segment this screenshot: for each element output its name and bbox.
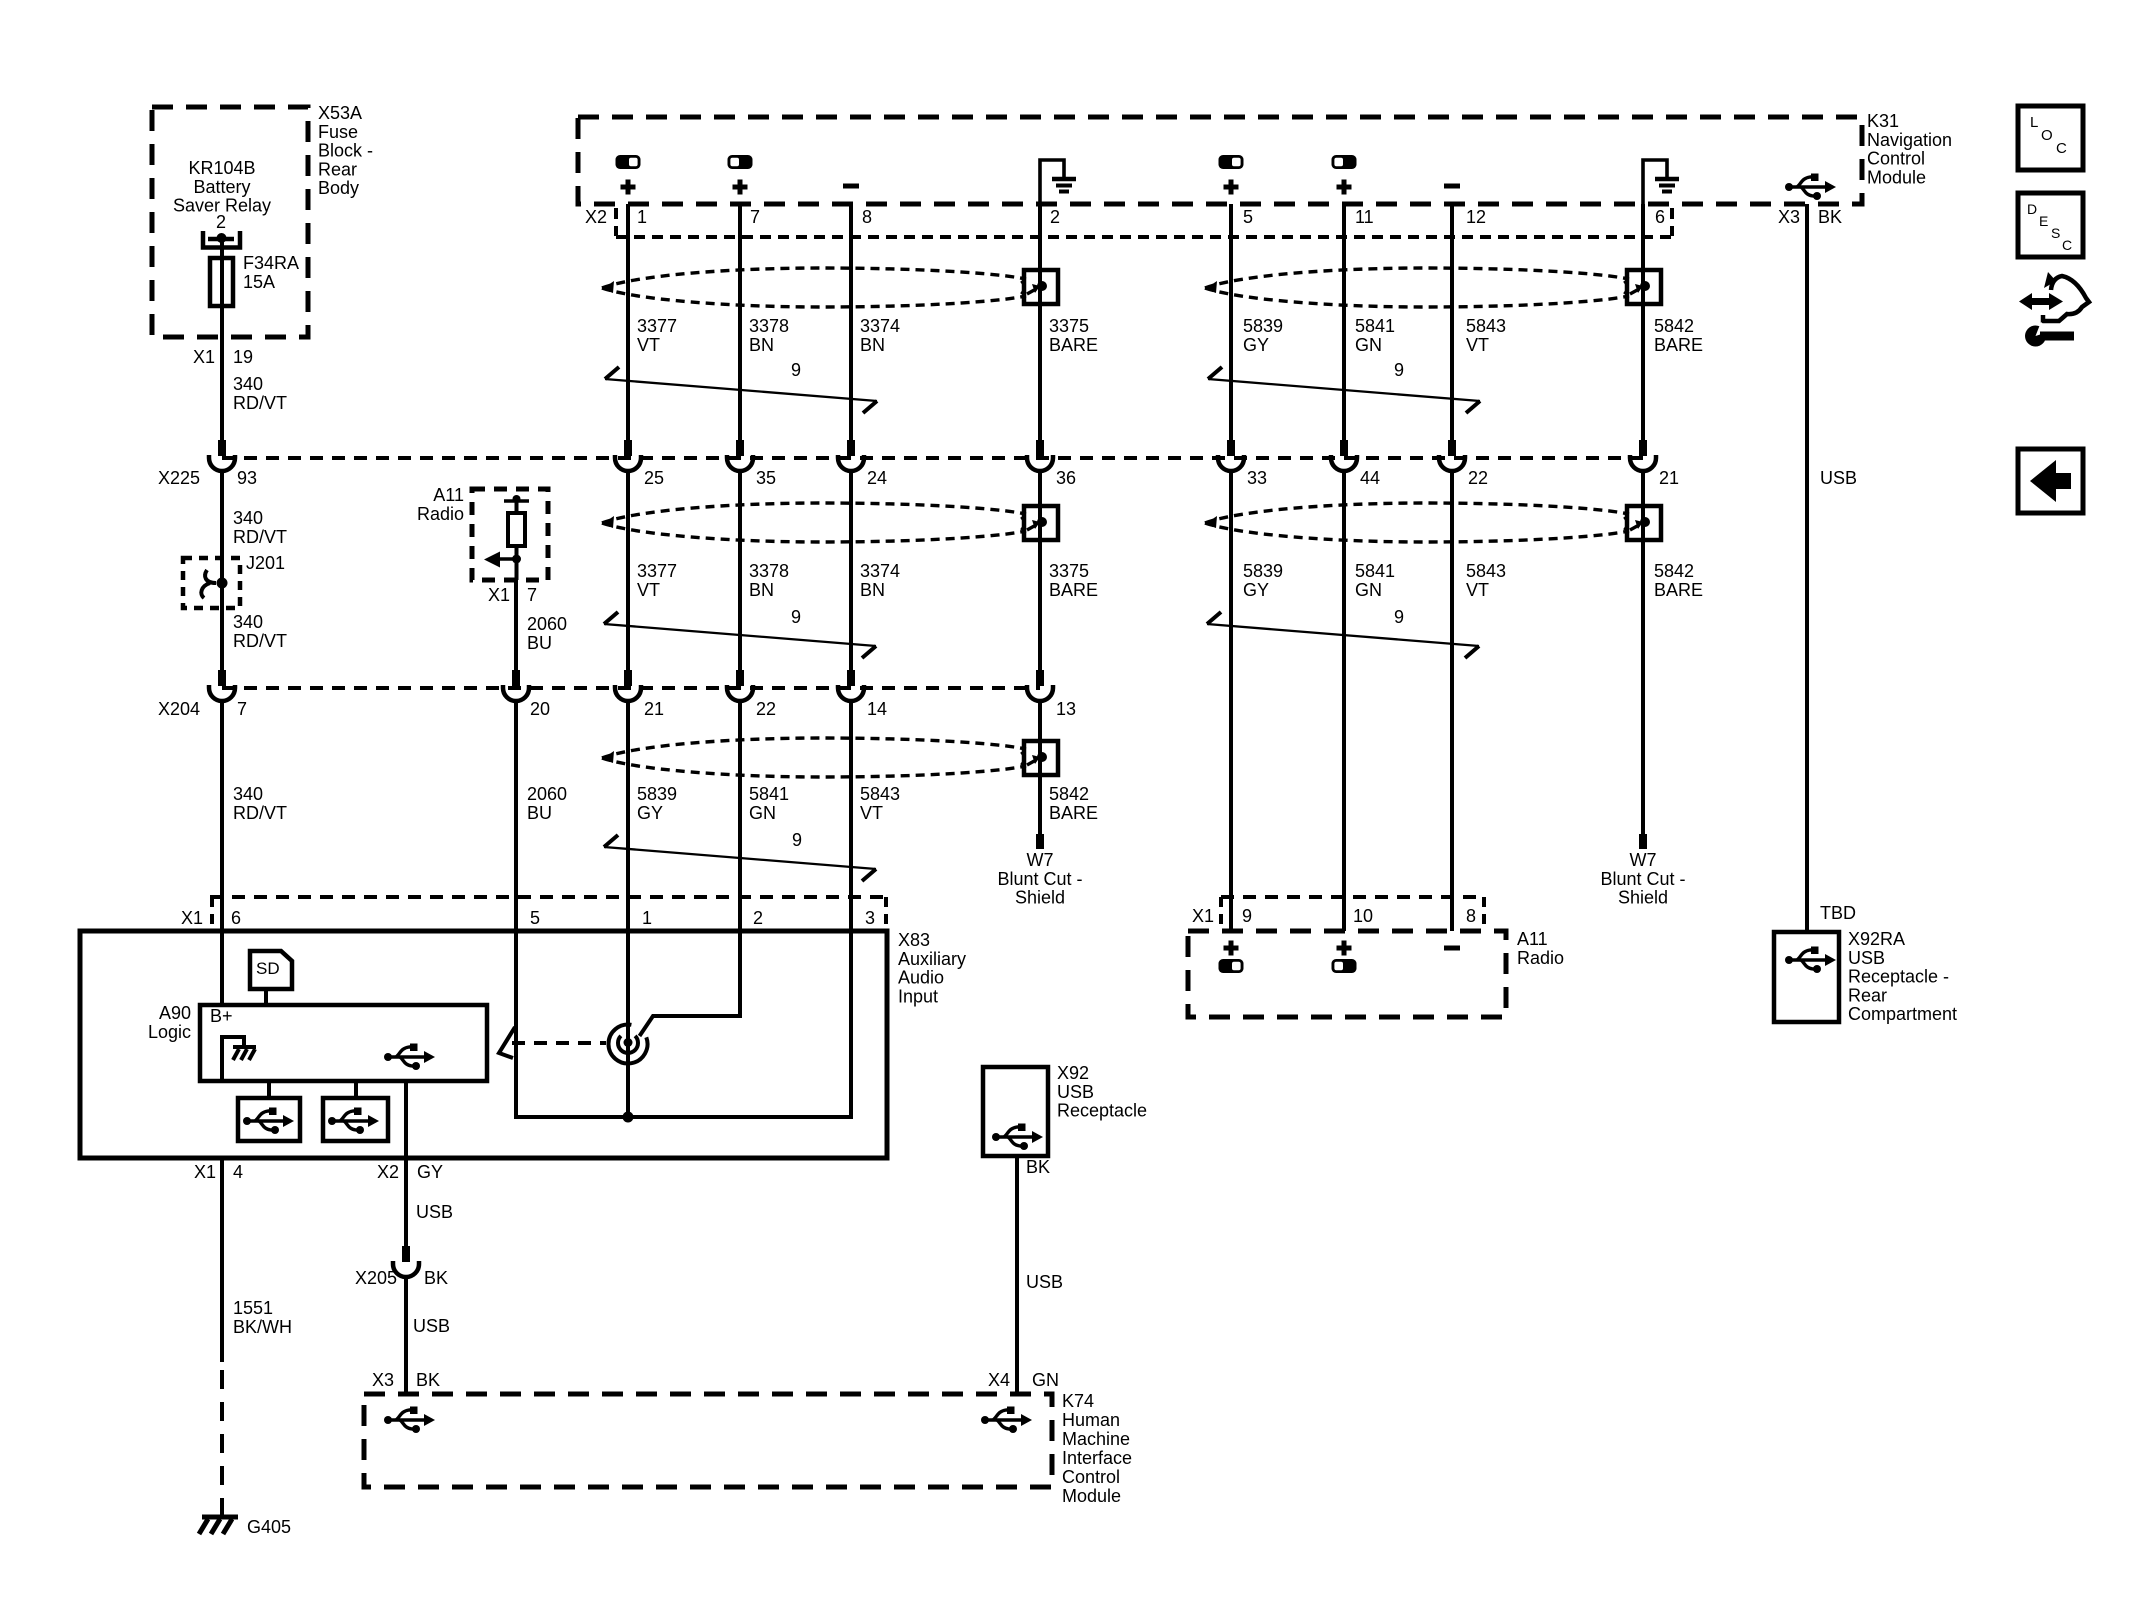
svg-text:25: 25	[644, 468, 664, 488]
plus polarity pin 11	[1337, 180, 1352, 195]
connector terminal X204 at x740	[727, 670, 753, 701]
svg-text:X1: X1	[488, 585, 510, 605]
wire A90 to usb port 2	[354, 1081, 358, 1098]
svg-text:E: E	[2039, 213, 2048, 229]
wire 5843 VT X225 to A11 radio	[1450, 471, 1454, 931]
svg-text:X2: X2	[377, 1162, 399, 1182]
shield termination row3 left	[1021, 741, 1058, 775]
wire 340 RD/VT X225 to J201	[220, 471, 224, 558]
ground G405	[202, 1515, 238, 1520]
wire 3377 VT pin1 to X225	[626, 204, 630, 441]
USB symbol internal A90	[384, 1044, 435, 1071]
wire GY USB A90 to X205	[404, 1158, 408, 1247]
usb port box 1	[238, 1098, 300, 1141]
svg-text:SD: SD	[256, 959, 280, 978]
aux jack contact (pin1)	[626, 931, 630, 1042]
svg-text:C: C	[2062, 237, 2072, 253]
speaker terminal symbol K31 pin 11	[1332, 155, 1357, 169]
svg-text:X2: X2	[585, 207, 607, 227]
svg-text:11: 11	[1355, 207, 1374, 227]
svg-text:7: 7	[237, 699, 247, 719]
svg-text:L: L	[2030, 114, 2038, 131]
dashed wire to G405	[220, 1370, 224, 1516]
internal arrow output A11 Radio	[512, 555, 521, 564]
svg-text:4: 4	[233, 1162, 243, 1182]
svg-text:1: 1	[637, 207, 647, 227]
svg-text:8: 8	[1466, 906, 1476, 926]
shield termination row2 left	[1021, 506, 1058, 540]
connector terminal X204 at x222	[209, 670, 235, 701]
wire 5842 BARE X204 to blunt cut left	[1038, 701, 1042, 848]
wire 340 RD/VT X204 to A90 B+	[220, 701, 224, 1005]
twisted pair shield row1 right	[1205, 268, 1629, 307]
wire 3378 BN X225 to X204	[738, 471, 742, 672]
module box A11 Radio (top)	[472, 489, 548, 580]
wire 3374 BN pin8 to X225	[849, 204, 853, 441]
speaker terminal symbol K31 pin 5	[1219, 155, 1244, 169]
svg-text:10: 10	[1353, 906, 1373, 926]
plus polarity pin 1	[621, 180, 636, 195]
svg-text:X205: X205	[355, 1268, 397, 1288]
connector terminal X225 at x1040	[1027, 440, 1053, 471]
svg-text:1: 1	[642, 908, 652, 928]
internal bus wire pins 5-1-3	[514, 931, 518, 1117]
svg-text:BK: BK	[416, 1370, 440, 1390]
module box A11 Radio bottom	[1188, 931, 1506, 1017]
icon box LOC	[2018, 106, 2083, 170]
wire USB X3 to X92RA	[1805, 204, 1809, 932]
connector terminal X225 at x1643	[1630, 440, 1656, 471]
wire 3377 VT X225 to X204	[626, 471, 630, 672]
svg-text:21: 21	[644, 699, 664, 719]
svg-text:24: 24	[867, 468, 887, 488]
svg-text:X1: X1	[193, 347, 215, 367]
svg-text:5: 5	[1243, 207, 1253, 227]
svg-text:G405: G405	[247, 1517, 291, 1537]
wire 5843 VT X204 to X83 pin3	[849, 701, 853, 1117]
svg-text:9: 9	[1394, 607, 1404, 627]
wire 5843 VT pin12 to X225	[1450, 204, 1454, 441]
svg-text:3: 3	[865, 908, 875, 928]
minus polarity pin 12	[1444, 184, 1460, 189]
note 9 arrow row3 left	[604, 835, 876, 881]
blunt cut W7 left end stub	[1036, 834, 1044, 849]
wire 3375 BARE X225 to X204	[1038, 471, 1042, 672]
USB symbol K31 connector X3	[1785, 174, 1836, 201]
wire BK USB X92 to K74 X4	[1015, 1156, 1019, 1394]
wire relay to fuse F34RA	[220, 238, 224, 258]
svg-text:9: 9	[791, 607, 801, 627]
svg-text:USB: USB	[1820, 468, 1857, 488]
connector X1 of X83	[210, 895, 884, 899]
svg-text:X1: X1	[181, 908, 203, 928]
module box K74 Human Machine Interface Control Module	[364, 1394, 1052, 1487]
USB symbol port 2	[328, 1108, 379, 1135]
twisted pair shield row2 left	[602, 503, 1026, 542]
svg-text:33: 33	[1247, 468, 1267, 488]
svg-text:35: 35	[756, 468, 776, 488]
svg-text:36: 36	[1056, 468, 1076, 488]
svg-text:X225: X225	[158, 468, 200, 488]
module box A90 Logic	[200, 1005, 487, 1081]
svg-text:BK: BK	[424, 1268, 448, 1288]
svg-text:X204: X204	[158, 699, 200, 719]
SD card symbol	[250, 951, 292, 989]
svg-text:GY: GY	[417, 1162, 443, 1182]
svg-text:BK: BK	[1818, 207, 1842, 227]
wire A90 to usb port 1	[267, 1081, 271, 1098]
svg-text:X1: X1	[194, 1162, 216, 1182]
svg-text:S: S	[2051, 225, 2060, 241]
wire 5842 BARE pin6 to X225	[1641, 204, 1645, 441]
wire 5839 GY X204 to X83 pin1 jack	[626, 701, 630, 1117]
wire A90 X2 USB output	[404, 1081, 408, 1158]
svg-text:9: 9	[792, 830, 802, 850]
wire 5839 GY X225 to A11 radio	[1229, 471, 1233, 931]
connector terminal X225 at x1231	[1218, 440, 1244, 471]
twisted pair shield row1 left	[602, 268, 1026, 307]
plus polarity A11 pin 9	[1224, 941, 1239, 956]
svg-text:USB: USB	[413, 1316, 450, 1336]
svg-text:X1: X1	[1192, 906, 1214, 926]
twisted pair shield row2 right	[1205, 503, 1629, 542]
USB symbol X92	[992, 1124, 1043, 1151]
speaker terminal symbol A11 pin 10	[1332, 959, 1357, 973]
svg-text:USB: USB	[1026, 1272, 1063, 1292]
speaker terminal symbol K31 pin 1	[616, 155, 641, 169]
wire 3375 BARE pin2 to X225	[1038, 204, 1042, 441]
wire 5841 GN pin11 to X225	[1342, 204, 1346, 441]
module box X83 Auxiliary Audio Input	[80, 931, 887, 1158]
internal ground symbol K31 pin 2	[1040, 160, 1076, 204]
minus polarity A11 pin 8	[1444, 946, 1460, 951]
connector terminal X204 at x1040	[1027, 670, 1053, 701]
svg-text:12: 12	[1466, 207, 1486, 227]
svg-text:9: 9	[1242, 906, 1252, 926]
svg-text:X3: X3	[372, 1370, 394, 1390]
connector terminal X204 at x516	[503, 670, 529, 701]
connector terminal X225 at x628	[615, 440, 641, 471]
svg-text:20: 20	[530, 699, 550, 719]
wire 2060 BU A11 radio to X204	[514, 580, 518, 672]
fuse F34RA 15A	[210, 258, 233, 306]
module box X92RA USB Receptacle Rear	[1774, 932, 1839, 1022]
svg-text:9: 9	[1394, 360, 1404, 380]
usb port box 2	[323, 1098, 388, 1141]
wire 5842 BARE X225 to blunt cut	[1641, 471, 1645, 848]
aux jack switch lever (pin2)	[640, 931, 741, 1036]
svg-text:2: 2	[753, 908, 763, 928]
svg-text:BK: BK	[1026, 1157, 1050, 1177]
wire 5839 GY pin5 to X225	[1229, 204, 1233, 441]
icon box back arrow	[2018, 449, 2083, 513]
note 9 arrow row2 left	[604, 612, 876, 658]
wire SD to A90	[264, 989, 268, 1005]
plus polarity pin 7	[733, 180, 748, 195]
connector terminal X204 at x628	[615, 670, 641, 701]
svg-text:X3: X3	[1778, 207, 1800, 227]
note 9 arrow row1 left	[605, 367, 877, 413]
internal supply bar and resistor in A11 Radio	[504, 499, 529, 503]
plus polarity A11 pin 10	[1337, 941, 1352, 956]
connector terminal X225 at x1452	[1439, 440, 1465, 471]
internal ground symbol K31 pin 6	[1643, 160, 1679, 204]
connector terminal X225 at x1344	[1331, 440, 1357, 471]
wire 2060 BU X204 to X83 pin5	[514, 701, 518, 1117]
note 9 arrow row1 right	[1208, 367, 1480, 413]
svg-text:6: 6	[231, 908, 241, 928]
connector X2 of K31	[614, 208, 618, 236]
twisted pair shield row3 left	[602, 738, 1026, 777]
USB symbol K74 X4	[981, 1407, 1032, 1434]
shield termination row2 right	[1624, 506, 1661, 540]
svg-text:USB: USB	[416, 1202, 453, 1222]
USB symbol port 1	[243, 1108, 294, 1135]
svg-text:19: 19	[233, 347, 253, 367]
blunt cut W7 right end stub	[1639, 834, 1647, 849]
svg-text:D: D	[2027, 201, 2037, 217]
dashed actuator line A90 to jack	[512, 1041, 606, 1045]
USB symbol K74 X3	[384, 1407, 435, 1434]
module box X92 USB Receptacle	[983, 1067, 1048, 1156]
shield termination row1 left on 3375	[1021, 270, 1058, 304]
svg-text:O: O	[2041, 127, 2053, 144]
in-line connector X225	[222, 456, 1643, 460]
svg-text:93: 93	[237, 468, 257, 488]
wire 5841 GN X225 to A11 radio	[1342, 471, 1346, 931]
speaker terminal symbol K31 pin 7	[728, 155, 753, 169]
note 9 arrow row2 right	[1207, 612, 1479, 658]
wire 1551 BK/WH	[220, 1158, 224, 1362]
splice J201	[183, 558, 240, 608]
icon repair instructions (arrows and wrench)	[2019, 293, 2063, 310]
wire 3374 BN X225 to X204	[849, 471, 853, 672]
connector terminal X225 at x740	[727, 440, 753, 471]
svg-text:5: 5	[530, 908, 540, 928]
svg-text:J201: J201	[246, 553, 285, 573]
svg-text:6: 6	[1655, 207, 1665, 227]
minus polarity pin 8	[843, 184, 859, 189]
connector X1 of A11 radio bottom	[1221, 895, 1484, 899]
svg-text:44: 44	[1360, 468, 1380, 488]
relay KR104B terminal	[203, 231, 240, 248]
svg-text:X4: X4	[988, 1370, 1010, 1390]
module box X53A Fuse Block - Rear Body	[152, 107, 308, 337]
shield termination row1 right on 5842	[1624, 270, 1661, 304]
svg-text:8: 8	[862, 207, 872, 227]
svg-text:13: 13	[1056, 699, 1076, 719]
USB symbol X92RA	[1785, 947, 1836, 974]
module box K31 Navigation Control Module	[578, 117, 1862, 204]
wire 340 RD/VT fuse output to X225	[220, 306, 224, 441]
svg-text:21: 21	[1659, 468, 1679, 488]
icon box DESC	[2018, 193, 2083, 257]
svg-text:B+: B+	[210, 1006, 233, 1026]
wire 3378 BN pin7 to X225	[738, 204, 742, 441]
svg-text:7: 7	[527, 585, 537, 605]
plus polarity pin 5	[1224, 180, 1239, 195]
svg-text:GN: GN	[1032, 1370, 1059, 1390]
svg-text:2: 2	[1050, 207, 1060, 227]
connector terminal X225 at x851	[838, 440, 864, 471]
wire 5841 GN X204 to X83 pin2	[738, 701, 742, 1016]
connector terminal X204 at x851	[838, 670, 864, 701]
svg-text:2: 2	[216, 212, 226, 232]
svg-text:22: 22	[1468, 468, 1488, 488]
svg-text:7: 7	[750, 207, 760, 227]
svg-text:22: 22	[756, 699, 776, 719]
wire BK USB X205 to K74	[404, 1277, 408, 1394]
in-line connector X205	[393, 1246, 419, 1277]
svg-text:C: C	[2056, 140, 2067, 157]
connector terminal X225 at x222	[209, 440, 235, 471]
svg-text:9: 9	[791, 360, 801, 380]
svg-text:TBD: TBD	[1820, 903, 1856, 923]
svg-text:14: 14	[867, 699, 887, 719]
in-line connector X204	[222, 686, 1040, 690]
internal chassis ground A90	[222, 1037, 244, 1081]
speaker terminal symbol A11 pin 9	[1219, 959, 1244, 973]
